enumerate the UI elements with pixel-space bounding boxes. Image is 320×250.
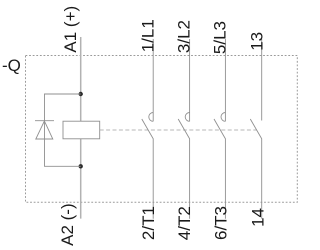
svg-text:4/T2: 4/T2 [175,206,194,240]
node top junction [79,92,83,96]
svg-text:3/L2: 3/L2 [174,20,193,53]
svg-text:6/T3: 6/T3 [212,206,231,240]
contactor outline -Q (dashed box) [26,56,298,203]
contact 13-14 (aux NO) [250,39,261,219]
wire A1 vertical [80,37,82,219]
wire suppressor branch [45,94,81,166]
contact 1/L1-2/T1 [142,39,153,219]
mechanical link (dashed) [100,129,257,131]
svg-text:14: 14 [249,208,268,227]
svg-text:-Q: -Q [2,56,21,75]
diode V1 (surge suppressor) [35,121,54,139]
svg-text:A1 (+): A1 (+) [61,6,80,53]
svg-text:5/L3: 5/L3 [210,21,229,54]
contact 5/L3-6/T3 [214,39,225,219]
svg-text:1/L1: 1/L1 [139,19,158,52]
node bottom junction [79,164,83,168]
coil K (rectangle) [63,121,100,139]
svg-text:13: 13 [248,32,267,51]
svg-text:2/T1: 2/T1 [139,206,158,240]
contact 3/L2-4/T2 [178,39,189,219]
svg-text:A2 (-): A2 (-) [58,203,77,246]
